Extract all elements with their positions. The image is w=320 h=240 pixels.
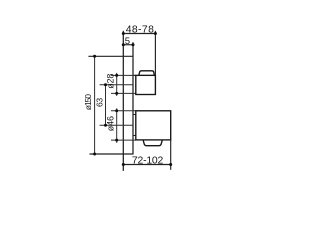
63 label	[94, 98, 104, 107]
knob centerline / 63 bottom extension	[100, 124, 133, 126]
plate front face line	[132, 42, 134, 154]
handle centerline / 63 top extension	[100, 84, 133, 86]
top stem stub upper (plate to handle)	[133, 74, 136, 76]
svg-text:ø28: ø28	[106, 74, 116, 89]
svg-text:72-102: 72-102	[132, 156, 164, 167]
svg-text:5: 5	[125, 36, 130, 47]
5 dimension line	[122, 43, 135, 46]
ø28 bottom extension / stem bottom	[111, 92, 136, 94]
5 label	[125, 36, 130, 47]
ø46 dimension line	[115, 108, 118, 143]
48-78 label	[126, 24, 155, 35]
63 dimension line	[104, 83, 107, 127]
ø150 dimension line	[93, 55, 96, 156]
svg-text:48-78: 48-78	[126, 24, 155, 35]
ø46 bottom extension	[111, 139, 136, 141]
plate bottom edge / ø150 bottom extension	[90, 153, 134, 155]
ø46 label	[106, 116, 116, 131]
ø46 top extension	[111, 110, 136, 112]
ø28 label	[106, 74, 116, 89]
bottom stem stub upper	[133, 114, 136, 116]
wall / plate back line	[122, 31, 124, 171]
48-78 dimension line	[122, 32, 157, 35]
knob body	[136, 111, 171, 140]
svg-text:63: 63	[94, 98, 104, 107]
handle body	[136, 75, 156, 94]
plate top edge / ø150 top extension	[88, 55, 133, 57]
knob right extension line	[170, 140, 172, 170]
ø28 dimension line	[115, 73, 118, 96]
bottom stem stub lower	[133, 135, 136, 137]
72-102 dimension line	[122, 163, 172, 166]
knob grip tab	[143, 140, 162, 146]
ø28 top extension / stem top	[111, 74, 136, 76]
handle grip tab	[139, 71, 155, 75]
handle right extension line	[154, 31, 156, 75]
svg-text:ø46: ø46	[106, 116, 116, 131]
ø150 label	[83, 94, 93, 110]
72-102 label	[132, 156, 164, 167]
svg-text:ø150: ø150	[83, 94, 93, 110]
